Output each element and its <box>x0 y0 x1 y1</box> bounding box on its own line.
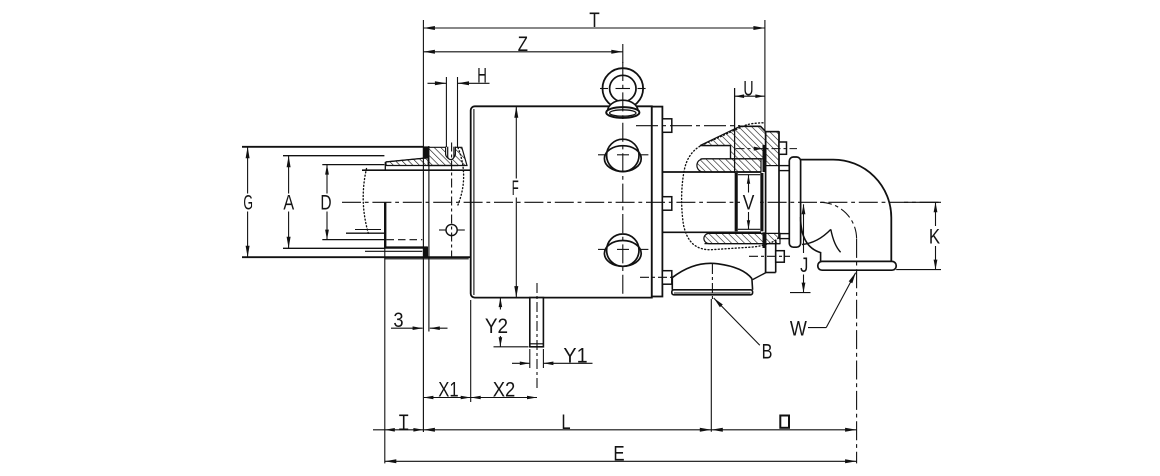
svg-text:D: D <box>320 191 331 214</box>
sleeve bore bottom line <box>738 228 760 230</box>
dim X2 line <box>471 397 537 399</box>
flange face line right of gap <box>428 146 430 332</box>
right flange plate foot bottom edge <box>766 272 776 274</box>
rotor pipe break line dotted <box>363 169 368 234</box>
boss B dome fill <box>672 263 753 295</box>
flange step bottom A-ext <box>283 247 385 249</box>
right flange plate top edge <box>766 131 779 133</box>
svg-text:Y2: Y2 <box>485 315 508 338</box>
right flange hatch top inner band <box>697 159 761 172</box>
svg-text:G: G <box>243 191 253 214</box>
dim T extension right <box>764 20 766 132</box>
dim Y2 line <box>499 298 501 310</box>
vertical centerline through eyebolt and ports <box>622 62 624 297</box>
dim D-box line <box>711 429 856 431</box>
dim Z line <box>423 51 622 53</box>
svg-text:U: U <box>743 77 753 100</box>
svg-text:T: T <box>589 9 600 32</box>
body tab bottom centerline <box>640 276 700 278</box>
D-ext top line / flange block top <box>322 164 384 166</box>
pipe top line <box>362 169 471 171</box>
nipple bottom lines <box>779 233 790 235</box>
flange bolt top centerline <box>736 148 798 150</box>
left flange hatch sliver band <box>386 158 428 166</box>
dim V line <box>748 175 750 193</box>
boss B dome <box>672 263 752 278</box>
left flange left edge upper <box>384 162 386 170</box>
flange bolt bottom centerline <box>749 255 790 257</box>
sleeve end face thick <box>760 173 763 231</box>
port plug upper circle <box>607 139 639 171</box>
dim A line <box>288 156 290 194</box>
flange gap strip filled upper (3mm) <box>423 146 429 158</box>
svg-text:K: K <box>929 226 940 249</box>
svg-text:X1: X1 <box>438 379 458 402</box>
port plug lower circle <box>607 234 639 266</box>
dim Y1 stud extension lines <box>529 349 531 368</box>
elbow curved centerline dash-dot <box>820 202 857 239</box>
body tab top centerline <box>636 125 740 127</box>
dim 3 leader left with arrow <box>391 327 423 329</box>
port plug upper ellipse <box>604 146 641 172</box>
eye bolt collar base ring <box>606 107 639 118</box>
elbow rib cusp right curve <box>831 229 841 252</box>
right flange hub top edge <box>740 125 761 127</box>
boss B left edge <box>671 278 673 290</box>
dim X1X2 body extension <box>470 300 472 402</box>
svg-text:H: H <box>477 65 487 88</box>
svg-text:V: V <box>743 192 755 215</box>
port upper center ticks <box>598 154 605 156</box>
rotor sleeve bottom line <box>662 231 761 233</box>
stud drain pipe <box>530 298 544 347</box>
dim H line with outside arrows <box>428 82 447 84</box>
centerline solid tail at K <box>904 201 941 203</box>
right flange inner band top line <box>701 158 762 160</box>
D-ext bottom line <box>322 239 384 241</box>
dim D line <box>326 165 328 194</box>
bolt slot H in flange (white) <box>446 147 456 159</box>
label D-box glyph <box>780 416 789 428</box>
eye bolt horizontal center ticks <box>600 88 608 90</box>
flange right break line dotted <box>458 148 464 206</box>
flange bolt top <box>779 142 787 154</box>
right flange plate hatch upper <box>766 132 779 166</box>
flange bottom line outer <box>384 258 468 260</box>
label I <box>399 414 408 416</box>
elbow outlet collar ring <box>818 261 896 270</box>
dim J line <box>803 204 805 253</box>
dim E line <box>385 460 857 462</box>
dim H extension right <box>457 77 459 147</box>
label V white backing <box>740 195 757 212</box>
flange band bottom line <box>386 165 458 167</box>
boss B right edge <box>751 279 754 290</box>
dim G line <box>247 147 249 194</box>
right flange notch right edge <box>730 146 732 159</box>
right flange notch bottom edge <box>702 145 731 147</box>
right flange plate foot right face <box>775 240 777 273</box>
hidden thread line in recess <box>387 239 423 241</box>
dim U extension left <box>734 88 736 173</box>
svg-text:X2: X2 <box>493 379 516 402</box>
dim I line with arrows <box>373 429 423 431</box>
dim K bottom extension <box>896 269 941 271</box>
main horizontal centerline <box>342 201 941 203</box>
Z extension tick above eyebolt <box>622 44 624 63</box>
elbow rib cusp left curve <box>802 229 831 244</box>
nipple top lines <box>779 165 790 167</box>
elbow inlet collar ring <box>789 157 800 247</box>
svg-text:A: A <box>283 191 294 214</box>
dim X1 line <box>423 397 470 399</box>
dim E extension left long <box>384 248 386 464</box>
cap plate bolt tab top <box>662 119 671 133</box>
flange gap strip filled lower (3mm) <box>423 247 428 258</box>
port plug lower ellipse <box>604 241 641 267</box>
dim U line <box>735 95 765 97</box>
body cap plate <box>652 107 663 297</box>
right flange hatch top outer band <box>700 126 766 159</box>
stud centerline <box>536 283 538 390</box>
cap plate bolt tab middle <box>662 197 671 211</box>
gasket dark strip bottom <box>763 232 766 248</box>
svg-text:F: F <box>512 177 519 200</box>
eye bolt ring inner <box>610 75 636 101</box>
svg-text:J: J <box>800 254 808 277</box>
dim T extension left <box>422 20 424 146</box>
boss B base <box>672 290 753 295</box>
eye bolt collar dome <box>608 100 639 111</box>
leader W arrow <box>849 272 856 283</box>
right flange hatch bottom inner band <box>704 233 780 243</box>
left flange sliver top diagonal <box>386 158 427 162</box>
dim J bottom extension <box>790 292 811 294</box>
right flange plate right face upper <box>778 132 780 239</box>
boss B base inner line <box>674 292 751 294</box>
svg-text:L: L <box>561 411 570 434</box>
flange lower inner line <box>365 250 422 252</box>
right flange hub top chamfer <box>761 126 766 131</box>
cap plate bolt tab bottom <box>662 271 671 285</box>
port lower center ticks <box>598 248 605 250</box>
flange step top A-ext <box>283 155 384 157</box>
dim L line <box>423 429 711 431</box>
rotor sleeve top line <box>662 171 761 173</box>
eye bolt collar base inner ring <box>610 110 636 116</box>
dim F line <box>515 106 517 178</box>
flange bottom line G-ext <box>242 256 471 258</box>
dim H extension left <box>445 77 447 147</box>
elbow inner flare <box>801 217 821 261</box>
boss B join to flange diagonal <box>753 273 766 280</box>
dim Y2 bottom extension <box>494 346 529 348</box>
eye bolt ring outer <box>603 68 644 109</box>
recess bottom thick line <box>384 246 428 248</box>
left flange hatch upper-right block <box>428 147 467 165</box>
right flange bottom band bottom line <box>705 243 781 245</box>
body housing outline <box>471 106 652 297</box>
sleeve bore shoulder thick <box>735 173 738 231</box>
svg-text:Y1: Y1 <box>563 345 587 368</box>
leader B arrow <box>714 298 723 307</box>
flange face line left of gap <box>422 146 424 432</box>
dim 3 right arrow <box>430 327 448 329</box>
svg-text:W: W <box>790 318 807 341</box>
pipe bottom inner line <box>355 229 381 231</box>
svg-text:E: E <box>613 442 624 465</box>
arrow at flange corner <box>754 147 763 151</box>
sleeve bore top line <box>738 174 760 176</box>
dim K line <box>935 202 937 226</box>
machine outline dotted blob <box>682 123 779 250</box>
dim boss extension long <box>710 299 712 432</box>
flange top line G-ext <box>242 146 423 148</box>
gasket dark strip top <box>763 145 766 172</box>
leader W line <box>808 327 826 329</box>
svg-text:B: B <box>762 341 773 364</box>
boss B centerline <box>711 264 713 302</box>
dim T line <box>423 27 765 29</box>
dim Y1 outside arrows <box>512 362 530 364</box>
bolt hole symbol on bolt circle <box>446 224 457 235</box>
bolt shank in slot <box>448 147 454 160</box>
pipe bottom chamfer line <box>346 232 385 234</box>
bolt hole cross ticks <box>439 229 446 231</box>
bolt centerline vertical dash-dot <box>451 143 453 258</box>
body left inner line <box>473 109 475 295</box>
elbow outlet vertical centerline <box>856 239 858 464</box>
right flange plate left face <box>765 132 767 273</box>
flange bolt bottom <box>776 251 785 263</box>
stud cap line <box>530 343 544 345</box>
recess left edge thick <box>384 202 386 247</box>
elbow outer profile <box>801 160 892 262</box>
svg-text:Z: Z <box>518 33 528 56</box>
